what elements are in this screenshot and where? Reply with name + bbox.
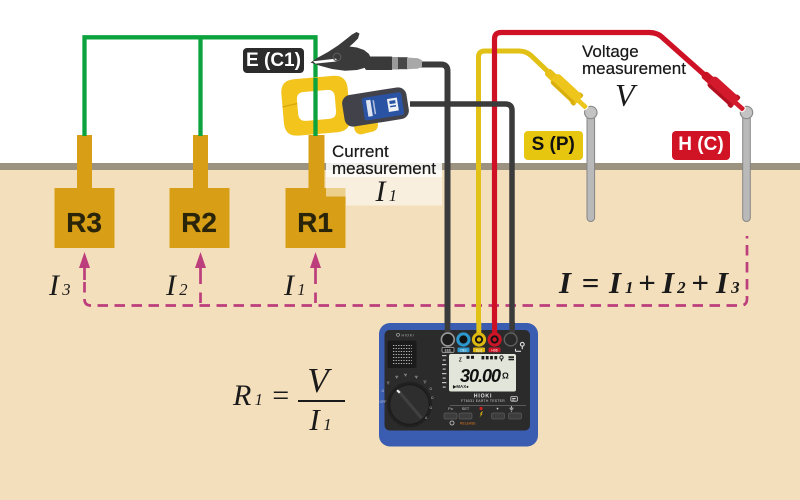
symbol I1 <box>376 177 398 211</box>
terminal labels <box>442 348 454 353</box>
clamp sensor body <box>341 86 410 128</box>
symbol V <box>615 79 635 111</box>
svg-text:EEE: EEE <box>445 348 453 352</box>
black cable from clamp sensor to meter <box>410 104 512 340</box>
label H (C) <box>672 131 730 160</box>
svg-text:SET: SET <box>462 407 470 411</box>
svg-text:▼: ▼ <box>496 407 500 411</box>
text Current measurement <box>332 143 436 177</box>
yellow test lead S wire <box>479 51 587 340</box>
terminals <box>445 323 451 336</box>
clamp trigger tab <box>353 116 380 135</box>
yellow clip on S spike <box>541 65 591 113</box>
svg-text:ΩEs: ΩEs <box>460 348 467 352</box>
svg-text:HIOKI: HIOKI <box>402 333 415 337</box>
svg-text:FT6031 EARTH TESTER: FT6031 EARTH TESTER <box>461 399 505 403</box>
green wire through clamp to R1 <box>313 78 317 136</box>
text R3 <box>54 209 114 237</box>
text Voltage measurement <box>582 43 686 77</box>
left tiny symbols column <box>442 355 446 388</box>
buttons <box>448 407 499 411</box>
earth spike H electrode <box>740 106 752 221</box>
earth tester meter <box>379 323 538 447</box>
electrode R2 <box>170 135 230 248</box>
rotary dial <box>387 382 432 427</box>
black test lead from alligator clip to meter E terminal <box>418 65 448 341</box>
electrode R3 <box>55 135 115 248</box>
dial markings <box>387 374 427 384</box>
red clip on H spike <box>698 68 749 116</box>
label I1 arrow <box>284 271 306 305</box>
svg-text:E(s): E(s) <box>476 348 482 352</box>
green wire from electrodes to E terminal <box>85 37 316 136</box>
current arrow I3 <box>79 252 90 280</box>
formula I = I1 + I2 + I3 <box>559 267 740 303</box>
label I2 <box>166 271 188 305</box>
text R1 <box>285 209 345 237</box>
earth spike S electrode <box>585 106 597 221</box>
current arrow I2 <box>195 252 206 303</box>
alligator clip E(C1) <box>311 32 423 71</box>
label S (P) <box>524 131 584 160</box>
current arrow I1 <box>310 252 321 303</box>
green wire branch R2 <box>198 37 202 136</box>
svg-text:H06: H06 <box>491 348 497 352</box>
svg-text:Po: Po <box>448 407 453 411</box>
svg-text:Ω: Ω <box>502 371 509 381</box>
red test lead H wire <box>495 33 745 341</box>
ground soil <box>0 170 800 500</box>
svg-text:RELEASE: RELEASE <box>460 422 476 426</box>
ground surface line <box>0 163 800 170</box>
label I3 <box>49 271 71 305</box>
LCD <box>449 354 516 392</box>
electrode R1 <box>286 135 346 248</box>
svg-text:OFF: OFF <box>380 400 387 404</box>
label E (C1) <box>243 48 304 73</box>
translucent highlight box behind Current measurement <box>326 120 442 206</box>
svg-text:30.00: 30.00 <box>460 366 501 386</box>
text R2 <box>169 209 229 237</box>
current clamp yellow jaw <box>280 75 351 137</box>
formula R1 = V / I1 <box>233 381 291 415</box>
pink dashed current return path <box>85 236 748 306</box>
